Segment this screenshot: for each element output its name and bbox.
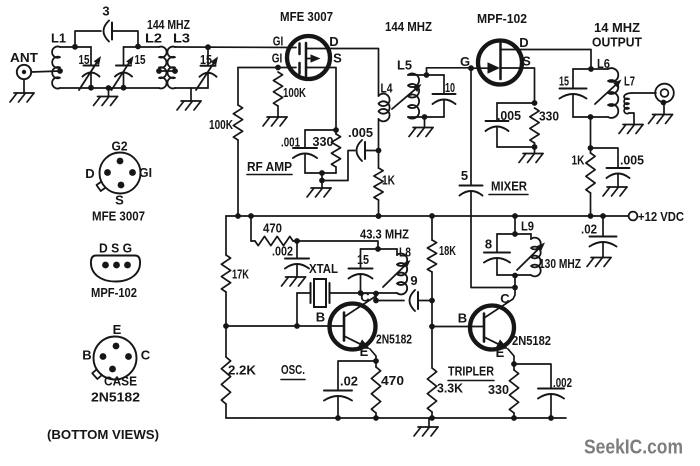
svg-text:MIXER: MIXER — [491, 179, 528, 194]
svg-text:B: B — [316, 310, 325, 325]
svg-text:1K: 1K — [382, 173, 395, 188]
svg-text:MPF-102: MPF-102 — [91, 285, 137, 300]
svg-text:GI: GI — [272, 51, 283, 66]
svg-text:.005: .005 — [620, 153, 644, 168]
svg-text:RF AMP: RF AMP — [247, 159, 292, 174]
svg-text:SeekIC.com: SeekIC.com — [584, 436, 683, 459]
svg-text:B: B — [82, 348, 91, 363]
svg-text:3.3K: 3.3K — [437, 381, 464, 396]
svg-text:L3: L3 — [173, 31, 190, 46]
svg-text:L8: L8 — [399, 245, 411, 260]
svg-text:100K: 100K — [209, 117, 233, 132]
svg-text:2.2K: 2.2K — [228, 363, 257, 378]
svg-text:S: S — [115, 193, 124, 208]
svg-text:D: D — [329, 34, 338, 49]
svg-text:TRIPLER: TRIPLER — [448, 364, 494, 379]
svg-text:L1: L1 — [51, 31, 66, 46]
svg-text:330: 330 — [539, 109, 559, 124]
svg-text:144 MHZ: 144 MHZ — [385, 19, 432, 34]
svg-text:470: 470 — [381, 373, 404, 388]
svg-text:330: 330 — [313, 134, 334, 149]
svg-text:+12 VDC: +12 VDC — [638, 209, 685, 224]
svg-text:5: 5 — [461, 168, 468, 183]
svg-text:18K: 18K — [439, 243, 456, 258]
svg-text:.02: .02 — [581, 222, 597, 237]
svg-text:D S G: D S G — [99, 241, 132, 256]
svg-text:10: 10 — [445, 80, 455, 95]
svg-text:ANT: ANT — [10, 50, 38, 65]
svg-text:G2: G2 — [112, 139, 128, 154]
svg-text:L2: L2 — [145, 31, 162, 46]
svg-text:2N5182: 2N5182 — [376, 332, 412, 347]
svg-text:XTAL: XTAL — [309, 261, 338, 276]
svg-text:144 MHZ: 144 MHZ — [147, 17, 190, 32]
svg-text:E: E — [113, 322, 122, 337]
svg-text:1K: 1K — [572, 153, 585, 168]
svg-text:17K: 17K — [232, 267, 249, 282]
svg-text:470: 470 — [263, 221, 282, 236]
svg-text:14 MHZ: 14 MHZ — [594, 20, 640, 35]
svg-text:OSC.: OSC. — [281, 362, 305, 377]
svg-text:9: 9 — [410, 273, 417, 288]
svg-text:GI: GI — [273, 34, 284, 49]
svg-text:2N5182: 2N5182 — [512, 333, 551, 348]
svg-text:MFE 3007: MFE 3007 — [92, 209, 145, 224]
svg-text:15: 15 — [135, 52, 146, 67]
svg-text:MPF-102: MPF-102 — [477, 11, 527, 26]
svg-text:3: 3 — [102, 4, 109, 19]
svg-text:L9: L9 — [521, 219, 534, 234]
svg-text:(BOTTOM VIEWS): (BOTTOM VIEWS) — [47, 427, 159, 442]
svg-text:.02: .02 — [340, 374, 358, 389]
svg-text:15: 15 — [559, 74, 569, 89]
svg-text:L5: L5 — [397, 58, 412, 73]
svg-text:D: D — [85, 166, 94, 181]
svg-text:S: S — [333, 51, 342, 66]
svg-text:2N5182: 2N5182 — [91, 390, 140, 405]
svg-text:330: 330 — [488, 382, 509, 397]
svg-text:8: 8 — [485, 237, 492, 252]
svg-text:.005: .005 — [348, 125, 373, 140]
svg-text:100K: 100K — [283, 85, 306, 100]
svg-text:D: D — [519, 35, 528, 50]
svg-text:.002: .002 — [272, 244, 293, 259]
svg-text:43.3 MHZ: 43.3 MHZ — [360, 227, 409, 242]
svg-text:C: C — [141, 348, 151, 363]
svg-text:130 MHZ: 130 MHZ — [539, 256, 581, 271]
svg-text:B: B — [458, 311, 467, 326]
svg-text:OUTPUT: OUTPUT — [592, 35, 642, 50]
svg-text:CASE: CASE — [104, 374, 137, 389]
svg-text:15: 15 — [357, 252, 369, 267]
svg-text:MFE 3007: MFE 3007 — [280, 9, 333, 24]
svg-text:L7: L7 — [624, 74, 635, 89]
